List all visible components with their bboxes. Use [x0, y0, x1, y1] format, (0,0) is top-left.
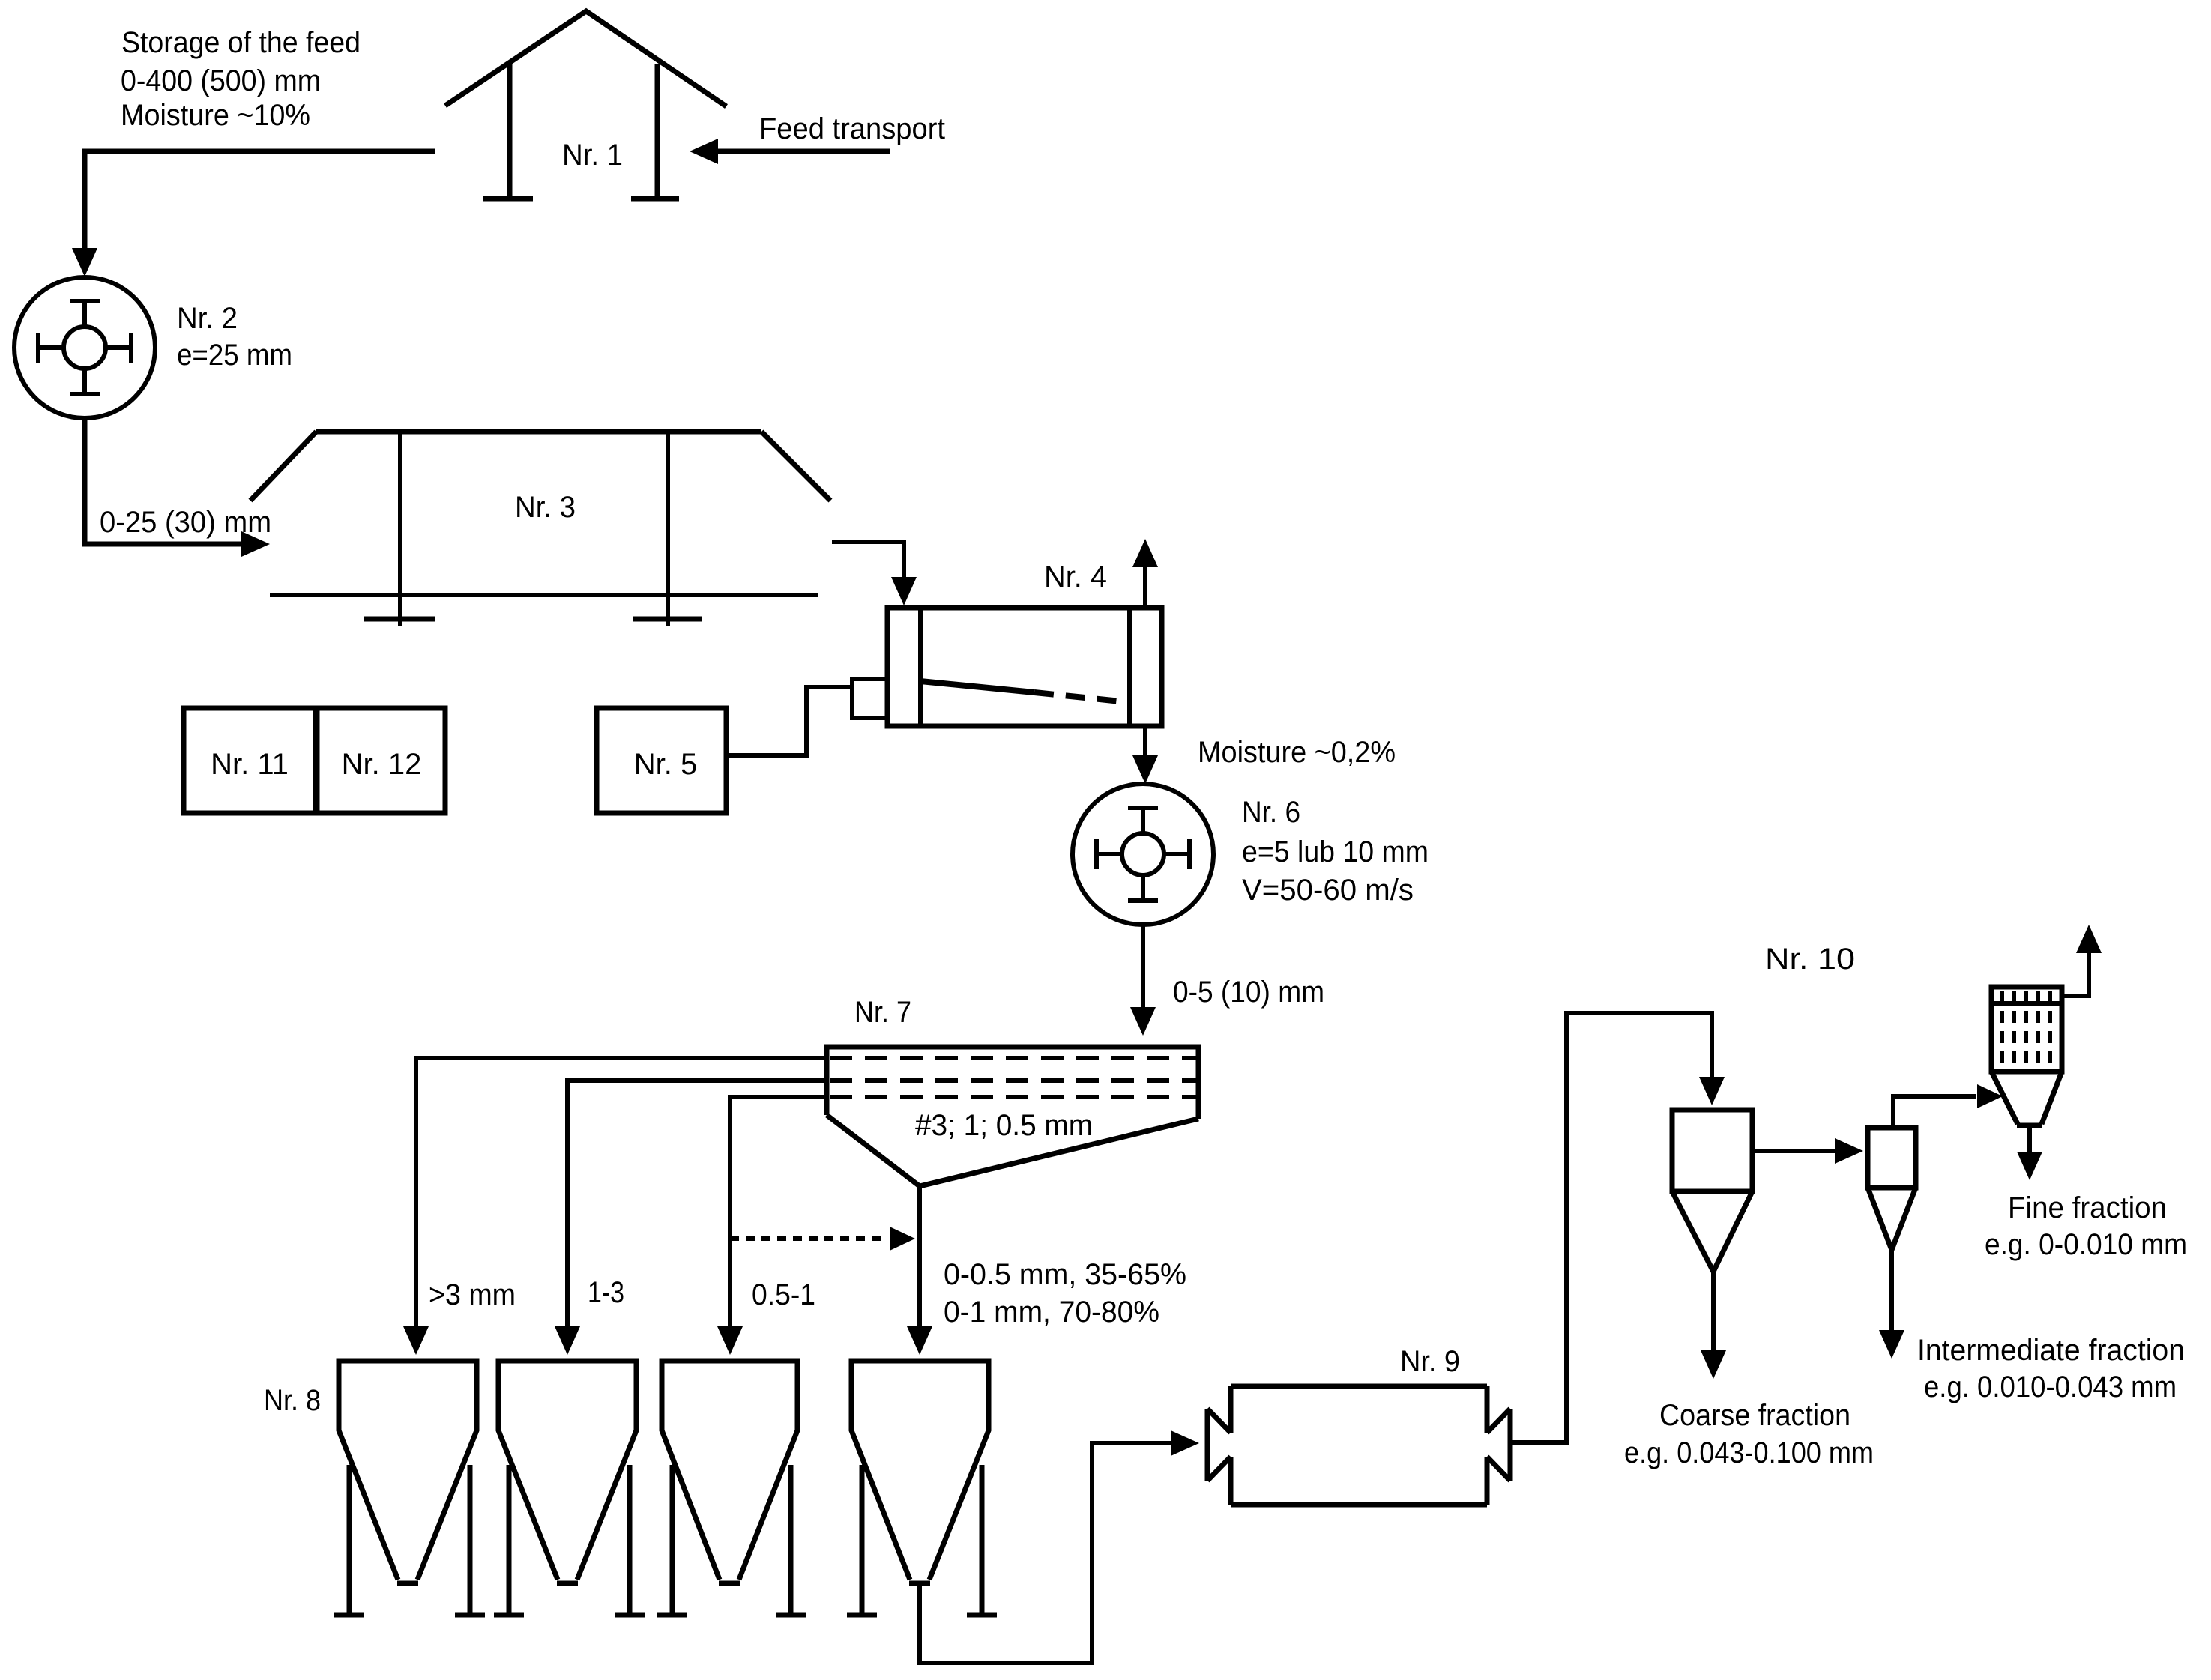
svg-text:1-3: 1-3 [588, 1276, 624, 1309]
svg-text:Nr. 4: Nr. 4 [1044, 560, 1107, 593]
svg-text:e.g. 0.010-0.043 mm: e.g. 0.010-0.043 mm [1924, 1371, 2177, 1403]
svg-text:Nr. 12: Nr. 12 [342, 748, 422, 781]
svg-text:#3; 1; 0.5 mm: #3; 1; 0.5 mm [915, 1109, 1093, 1142]
svg-text:Moisture ~10%: Moisture ~10% [121, 99, 310, 132]
svg-text:e.g. 0-0.010 mm: e.g. 0-0.010 mm [1985, 1228, 2187, 1261]
svg-text:Nr. 3: Nr. 3 [515, 491, 576, 524]
svg-text:e.g. 0.043-0.100 mm: e.g. 0.043-0.100 mm [1624, 1436, 1874, 1469]
svg-text:Coarse fraction: Coarse fraction [1659, 1399, 1850, 1432]
svg-text:0.5-1: 0.5-1 [752, 1278, 815, 1311]
svg-text:0-5 (10) mm: 0-5 (10) mm [1173, 976, 1324, 1009]
svg-text:Intermediate fraction: Intermediate fraction [1917, 1334, 2185, 1367]
svg-text:Moisture ~0,2%: Moisture ~0,2% [1198, 736, 1396, 769]
svg-text:Nr. 10: Nr. 10 [1765, 943, 1855, 976]
svg-text:0-0.5 mm, 35-65%: 0-0.5 mm, 35-65% [944, 1258, 1186, 1291]
svg-text:0-400 (500) mm: 0-400 (500) mm [121, 64, 321, 97]
svg-text:0-25 (30) mm: 0-25 (30) mm [100, 506, 271, 539]
svg-text:Storage of the feed: Storage of the feed [121, 26, 361, 59]
svg-text:Feed transport: Feed transport [759, 112, 945, 145]
svg-text:Nr. 2: Nr. 2 [177, 302, 238, 335]
svg-text:V=50-60 m/s: V=50-60 m/s [1242, 874, 1414, 907]
svg-text:Nr. 8: Nr. 8 [264, 1384, 321, 1417]
svg-text:>3 mm: >3 mm [429, 1278, 516, 1311]
svg-text:0-1 mm, 70-80%: 0-1 mm, 70-80% [944, 1296, 1159, 1329]
svg-text:Nr. 9: Nr. 9 [1400, 1345, 1460, 1378]
svg-text:Nr. 11: Nr. 11 [211, 748, 289, 781]
svg-text:Nr. 5: Nr. 5 [634, 748, 697, 781]
svg-text:e=25 mm: e=25 mm [177, 339, 292, 372]
svg-text:e=5 lub 10 mm: e=5 lub 10 mm [1242, 836, 1429, 868]
svg-text:Nr. 6: Nr. 6 [1242, 796, 1300, 829]
svg-text:Fine fraction: Fine fraction [2008, 1191, 2167, 1224]
svg-text:Nr. 1: Nr. 1 [562, 139, 623, 172]
svg-text:Nr. 7: Nr. 7 [854, 996, 911, 1029]
